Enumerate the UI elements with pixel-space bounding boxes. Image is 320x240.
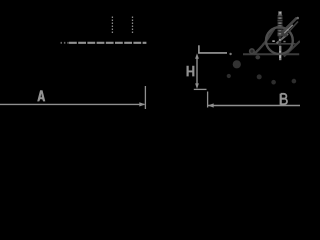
debris dot 6 (292, 79, 297, 84)
thread ridge 1 (278, 16, 283, 18)
column upper cap (278, 11, 282, 15)
rail left end tick (198, 45, 200, 53)
extension line A (144, 86, 146, 109)
column lower bright core (279, 51, 281, 58)
thread ridge 3 (278, 21, 283, 23)
column threaded stack (278, 15, 283, 36)
thread ridge 7 (278, 31, 283, 33)
arrowhead B left (208, 103, 214, 107)
rail top-view dashed bar (main) (69, 42, 146, 44)
dimension line H (196, 57, 198, 86)
hidden hole centerline 2 (132, 17, 134, 35)
hidden hole centerline 1 (111, 17, 113, 35)
support rod right (284, 41, 300, 57)
column mid shaft (279, 36, 282, 46)
thread ridge 5 (278, 26, 283, 28)
column cap highlight (279, 12, 281, 14)
arrowhead A right (139, 102, 145, 106)
foot tab below base (255, 55, 260, 59)
handle bright core (284, 25, 293, 33)
hub center highlight (279, 39, 281, 41)
arrowhead H bottom (195, 83, 199, 89)
bottom reference line (194, 88, 207, 90)
column lower bright shaft (279, 46, 281, 60)
handle clamp (281, 30, 287, 37)
breaker arm (254, 28, 275, 55)
debris dot 5 (271, 80, 276, 85)
handle lower prong (285, 22, 298, 36)
thread highlight 3 (279, 26, 282, 27)
debris dot large (233, 60, 241, 68)
handle tip dot (296, 17, 299, 20)
thread ridge 2 (278, 18, 283, 20)
rail top-view dashed bar (lead-in faint dashes) (61, 42, 70, 44)
thread highlight 1 (279, 18, 282, 19)
scoring wheel (266, 27, 293, 54)
roller (250, 49, 255, 54)
label H (188, 66, 194, 77)
thread highlight 5 (279, 33, 282, 34)
hub streak (277, 34, 289, 44)
thread ridge 6 (278, 28, 283, 30)
thread highlight 2 (279, 23, 282, 24)
dimension line A (0, 103, 145, 105)
debris dot 2 (227, 74, 231, 78)
thread highlight 4 (279, 30, 282, 31)
hub highlight dash (272, 40, 275, 42)
hub right highlight (283, 41, 285, 43)
label B (281, 94, 287, 105)
axle crossbar (263, 43, 296, 45)
thread ridge 4 (278, 23, 283, 25)
carriage base line (243, 53, 299, 55)
dimension line B (208, 105, 300, 107)
extension line B (207, 92, 209, 108)
rail side-view top line (198, 52, 227, 54)
arrowhead H top (195, 53, 199, 59)
debris dot 4 (257, 74, 262, 79)
handle upper stroke (284, 18, 297, 31)
rail small dot (229, 53, 231, 55)
label A (37, 90, 45, 101)
